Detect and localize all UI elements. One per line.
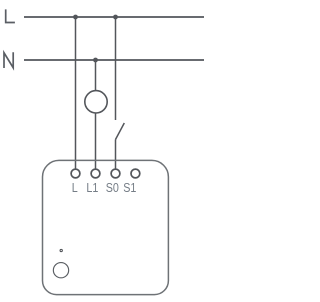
svg-text:L: L xyxy=(72,181,78,195)
svg-text:S0: S0 xyxy=(106,181,120,195)
svg-text:L1: L1 xyxy=(86,181,98,195)
svg-text:S1: S1 xyxy=(123,181,136,195)
